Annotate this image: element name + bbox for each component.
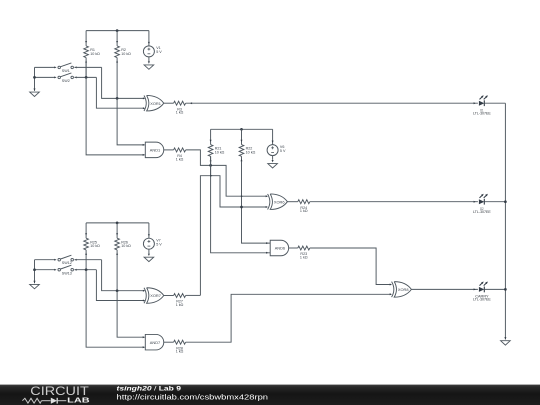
wire R1 column to AND1: [86, 77, 145, 154]
wire XOR8 output to CARRY LED: [411, 288, 478, 290]
resistor R21: [208, 129, 224, 175]
wire R1 bottom to node B column: [85, 62, 87, 78]
led CARRY: [473, 282, 491, 302]
wire D2 to rail: [484, 201, 505, 203]
svg-text:CIRCUIT: CIRCUIT: [30, 384, 89, 398]
ground right rail: [501, 337, 511, 345]
svg-text:SW12: SW12: [62, 261, 72, 265]
wire R26 column to AND7: [117, 291, 145, 338]
svg-text:5 V: 5 V: [156, 242, 162, 246]
wire node C vertical: [102, 260, 145, 291]
svg-text:10 kΩ: 10 kΩ: [121, 52, 131, 56]
resistor R24: [298, 200, 310, 213]
svg-text:1 kΩ: 1 kΩ: [176, 157, 184, 161]
svg-text:1 kΩ: 1 kΩ: [300, 209, 308, 213]
footer bar: [0, 384, 540, 405]
svg-text:LTL-307EE: LTL-307EE: [473, 112, 491, 116]
voltage source V1: [143, 31, 162, 61]
svg-text:XOR7: XOR7: [150, 293, 161, 298]
voltage source V6: [267, 129, 286, 160]
wire R27 to riser: [186, 294, 201, 296]
wire node B vertical: [96, 77, 144, 108]
resistor R28: [174, 340, 186, 353]
switch SW1: [35, 63, 102, 73]
svg-text:XOR8: XOR8: [398, 287, 409, 292]
xor gate XOR7: [143, 288, 164, 304]
switch SW13: [35, 265, 97, 275]
resistor R23: [298, 246, 310, 259]
svg-text:SW1: SW1: [62, 69, 70, 73]
svg-text:10 kΩ: 10 kΩ: [246, 151, 256, 155]
led D2: [473, 194, 491, 214]
resistor R27: [174, 294, 186, 307]
node R26-C junction: [116, 289, 119, 292]
svg-text:1 kΩ: 1 kΩ: [176, 111, 184, 115]
svg-text:LAB: LAB: [67, 397, 90, 404]
wire AND1-out to H1: [186, 150, 267, 196]
resistor R4: [174, 148, 186, 162]
ground switches top: [30, 89, 40, 97]
wire left ground column: [34, 67, 36, 91]
switch SW2: [35, 73, 97, 83]
wire R25 column to AND7: [86, 270, 145, 348]
svg-text:10 kΩ: 10 kΩ: [215, 151, 225, 155]
xor gate XOR1: [143, 95, 164, 111]
svg-text:5 V: 5 V: [280, 149, 286, 153]
ground V6: [268, 160, 278, 168]
wire R21 column to AND6: [211, 156, 270, 253]
and gate AND1: [143, 142, 164, 158]
ground switches bottom: [30, 281, 40, 289]
wire XOR6 output: [287, 201, 297, 203]
wire bottom supply rail: [86, 222, 149, 224]
xor gate XOR6: [266, 194, 288, 210]
wire right rail: [504, 103, 506, 339]
wire H1 vertex arrow: [241, 195, 243, 197]
svg-text:1 kΩ: 1 kΩ: [300, 255, 308, 259]
wire R23 to XOR8 input 1: [310, 248, 391, 285]
resistor R3: [174, 101, 186, 114]
node R21-C1 junction: [209, 164, 212, 167]
node D2-rail junction: [504, 200, 507, 203]
node rail2-R22 junction: [240, 128, 243, 131]
switch SW12: [35, 255, 102, 265]
wire D1 to rail: [484, 102, 505, 104]
node CARRY-rail junction: [504, 288, 507, 291]
node SW2-ground junction: [33, 76, 36, 79]
resistor R22: [239, 129, 255, 207]
wire AND7-out to XOR8 input 2: [186, 294, 391, 342]
led D1: [473, 95, 491, 115]
svg-text:http://circuitlab.com/csbwbmx4: http://circuitlab.com/csbwbmx428rpn: [117, 394, 269, 401]
svg-text:10 kΩ: 10 kΩ: [121, 244, 131, 248]
svg-text:SW2: SW2: [62, 79, 70, 83]
and gate AND7: [143, 334, 164, 350]
svg-text:LTL-307EE: LTL-307EE: [473, 298, 491, 302]
resistor R1: [84, 31, 100, 78]
resistor R2: [115, 31, 131, 99]
wire middle supply rail: [211, 128, 273, 130]
wire AND6 output: [289, 247, 298, 249]
node R22-XOR7out junction: [240, 206, 243, 209]
node R2-A junction: [116, 97, 119, 100]
svg-text:10 kΩ: 10 kΩ: [90, 52, 100, 56]
wire R24 to LED D2: [310, 201, 478, 203]
wire node D vertical: [96, 270, 144, 301]
wire R3 to LED D1: [186, 102, 478, 104]
resistor R25: [84, 223, 100, 270]
svg-text:tsingh20 / Lab 9: tsingh20 / Lab 9: [117, 385, 182, 392]
node R25-SW13 junction: [85, 268, 88, 271]
svg-text:AND7: AND7: [150, 340, 160, 345]
svg-text:SW13: SW13: [62, 271, 72, 275]
and gate AND6: [266, 240, 289, 256]
wire R2 column to AND1: [117, 98, 145, 144]
node rail1-R2 junction: [116, 29, 119, 32]
svg-text:5 V: 5 V: [156, 50, 162, 54]
svg-text:10 kΩ: 10 kΩ: [90, 244, 100, 248]
wire AND1 output: [164, 149, 174, 151]
ground V7: [144, 254, 154, 262]
voltage source V7: [143, 223, 162, 254]
ground V1: [144, 61, 154, 69]
xor gate XOR8: [390, 282, 412, 298]
wire top supply rail: [86, 30, 149, 32]
resistor R26: [115, 223, 131, 291]
svg-text:LTL-307EE: LTL-307EE: [473, 210, 491, 214]
svg-text:XOR6: XOR6: [274, 199, 285, 204]
wire XOR7 output: [164, 295, 174, 297]
svg-text:XOR1: XOR1: [150, 101, 161, 106]
svg-text:AND1: AND1: [150, 148, 160, 153]
node SW13-ground junction: [33, 268, 36, 271]
wire CARRY to rail: [484, 288, 505, 290]
wire AND7 output: [164, 341, 174, 343]
wire node A vertical: [102, 67, 145, 98]
svg-text:AND6: AND6: [275, 246, 285, 251]
node R1-SW2 junction B: [85, 76, 88, 79]
wire XOR1 output: [164, 102, 174, 104]
svg-text:1 kΩ: 1 kΩ: [176, 303, 184, 307]
wire R22 column to AND6: [242, 207, 271, 243]
node rail3-R26 junction: [116, 222, 119, 225]
svg-text:1 kΩ: 1 kΩ: [176, 350, 184, 354]
wire left ground column bottom: [34, 260, 36, 284]
wire XOR7-out riser H2: [200, 175, 267, 296]
